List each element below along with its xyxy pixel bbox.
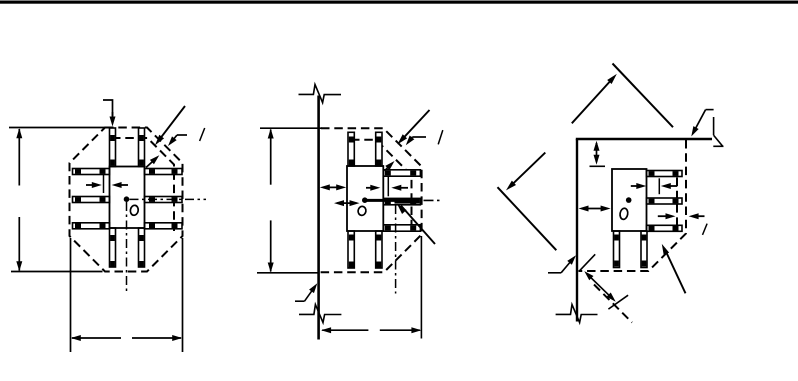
figure 3: note slash — [703, 224, 708, 235]
figure 3: pad gap facing arrows lower — [658, 213, 705, 219]
figure 3: leader to outline corner — [691, 110, 705, 137]
figure 1: pad gap facing arrows — [86, 175, 128, 194]
figure 3: component body outline — [612, 169, 647, 231]
figure 1: long leader to corner — [155, 106, 185, 145]
figure 2: pad gap facing arrows — [366, 177, 408, 197]
figure 1: centerline horizontal (dash-dot) — [130, 198, 207, 200]
figure 3: diagonal reference line upper — [613, 64, 674, 128]
figure 1: short leader to corner — [168, 135, 187, 146]
figure 3: diagonal extension tick upper — [580, 254, 596, 270]
top border rule — [0, 1, 798, 4]
figure 2: component body outline — [347, 166, 383, 231]
figure 3: leader to board edge — [548, 255, 576, 273]
figure 2: inner corner arrow — [385, 161, 395, 171]
figure 3: top right break symbol — [706, 110, 724, 147]
figure 3: pad gap facing arrows upper — [631, 178, 678, 194]
figure 2: vertical dimension with arrows — [257, 128, 322, 273]
figure 1: bottom extension line — [11, 271, 103, 273]
figure 2: top break symbol — [299, 85, 342, 103]
figure 1: inner corner arrow — [146, 155, 159, 167]
figure 1: bottom width dimension with arrows — [71, 238, 183, 352]
figure 3: terminal pads with solder dots — [614, 171, 683, 268]
figure 2: vertical centerline (dash-dot) — [395, 205, 397, 294]
figure 1: top extension line — [9, 127, 105, 129]
figure 3: diagonal clearance dimension — [584, 271, 615, 302]
figure 2: origin label 0 — [357, 206, 366, 216]
figure 1: centerline vertical (dash-dot) — [126, 202, 128, 294]
figure 1: component body outline — [110, 167, 145, 229]
figure 3: left edge to body dimension — [579, 206, 611, 212]
figure 3: origin label 0 — [619, 208, 628, 220]
figure 2: short leader to corner — [406, 136, 426, 146]
figure 2: bottom break symbol — [299, 305, 341, 323]
figure 2: body edge double arrow — [334, 200, 360, 206]
figure 3: origin dot — [626, 197, 632, 203]
figure 1: land pattern octagon outline (dashed) — [70, 128, 183, 272]
figure 2: terminal pads with solder dots — [348, 132, 420, 268]
figure 2: leader to board edge — [295, 283, 317, 301]
figure 3: dashed diagonal reference — [594, 285, 632, 323]
figure 1: origin label 0 — [130, 205, 139, 216]
figure 3: diagonal extension tick lower — [608, 295, 628, 309]
figure 2: cut land pattern outline (dashed) — [320, 128, 422, 272]
figure 3: diagonal reference line lower — [498, 187, 557, 250]
figure 2: leader into pad row — [397, 204, 435, 244]
figure 2: heavy centerline through pad — [365, 198, 440, 204]
figure 3: bottom break symbol — [556, 305, 598, 323]
figure 3: board corner edge lines — [576, 139, 712, 322]
figure 3: arrow to lower diagonal — [506, 153, 545, 191]
figure 2: bottom dimension with arrows — [321, 236, 421, 339]
figure 3: maximum component outline (dashed inner) — [676, 178, 678, 226]
figure 1: terminal pads with solder dots — [73, 128, 183, 267]
figure 1: origin dot — [124, 196, 130, 202]
figure 3: arrow to upper diagonal — [572, 74, 617, 123]
figure 3: top edge to body dimension — [590, 141, 606, 167]
figure 3: cut land pattern outline (dashed) — [579, 140, 687, 271]
figure 2: edge to body dimension arrows — [320, 184, 346, 190]
figure 1: maximum component outline (dashed inner) — [112, 138, 174, 231]
figure 2: board edge line — [317, 96, 320, 340]
figure 2: note slash — [438, 130, 443, 144]
figure 1: note slash — [200, 128, 205, 141]
figure 3: leader into bottom pads — [662, 244, 686, 293]
figure 2: origin dot — [362, 197, 368, 203]
figure 2: maximum component outline (dashed inner) — [351, 140, 412, 226]
figure 1: vertical dimension line with arrows — [16, 128, 22, 271]
figure 2: long leader to corner — [397, 110, 429, 144]
figure 1: leader to top pad — [103, 100, 116, 127]
